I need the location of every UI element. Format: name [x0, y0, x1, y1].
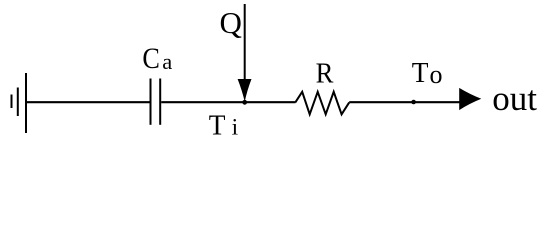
svg-text:T: T [209, 110, 226, 142]
wire capacitor to node Ti [161, 101, 295, 103]
resistor R [295, 92, 349, 115]
svg-text:o: o [430, 60, 443, 89]
ground [12, 73, 27, 133]
svg-text:Q: Q [220, 5, 242, 40]
svg-text:R: R [316, 57, 334, 89]
svg-text:T: T [412, 57, 429, 89]
Q input arrow wire [244, 4, 246, 88]
wire resistor to output [349, 101, 460, 103]
svg-text:C: C [142, 43, 160, 75]
wire ground to capacitor [26, 101, 150, 103]
node Ti junction dot [242, 100, 247, 105]
svg-text:i: i [232, 114, 239, 140]
svg-text:a: a [162, 49, 172, 74]
output arrowhead [459, 88, 481, 110]
node To dot [411, 100, 416, 105]
svg-text:out: out [492, 79, 537, 118]
Q arrowhead [238, 79, 252, 102]
capacitor Ca [151, 79, 161, 125]
